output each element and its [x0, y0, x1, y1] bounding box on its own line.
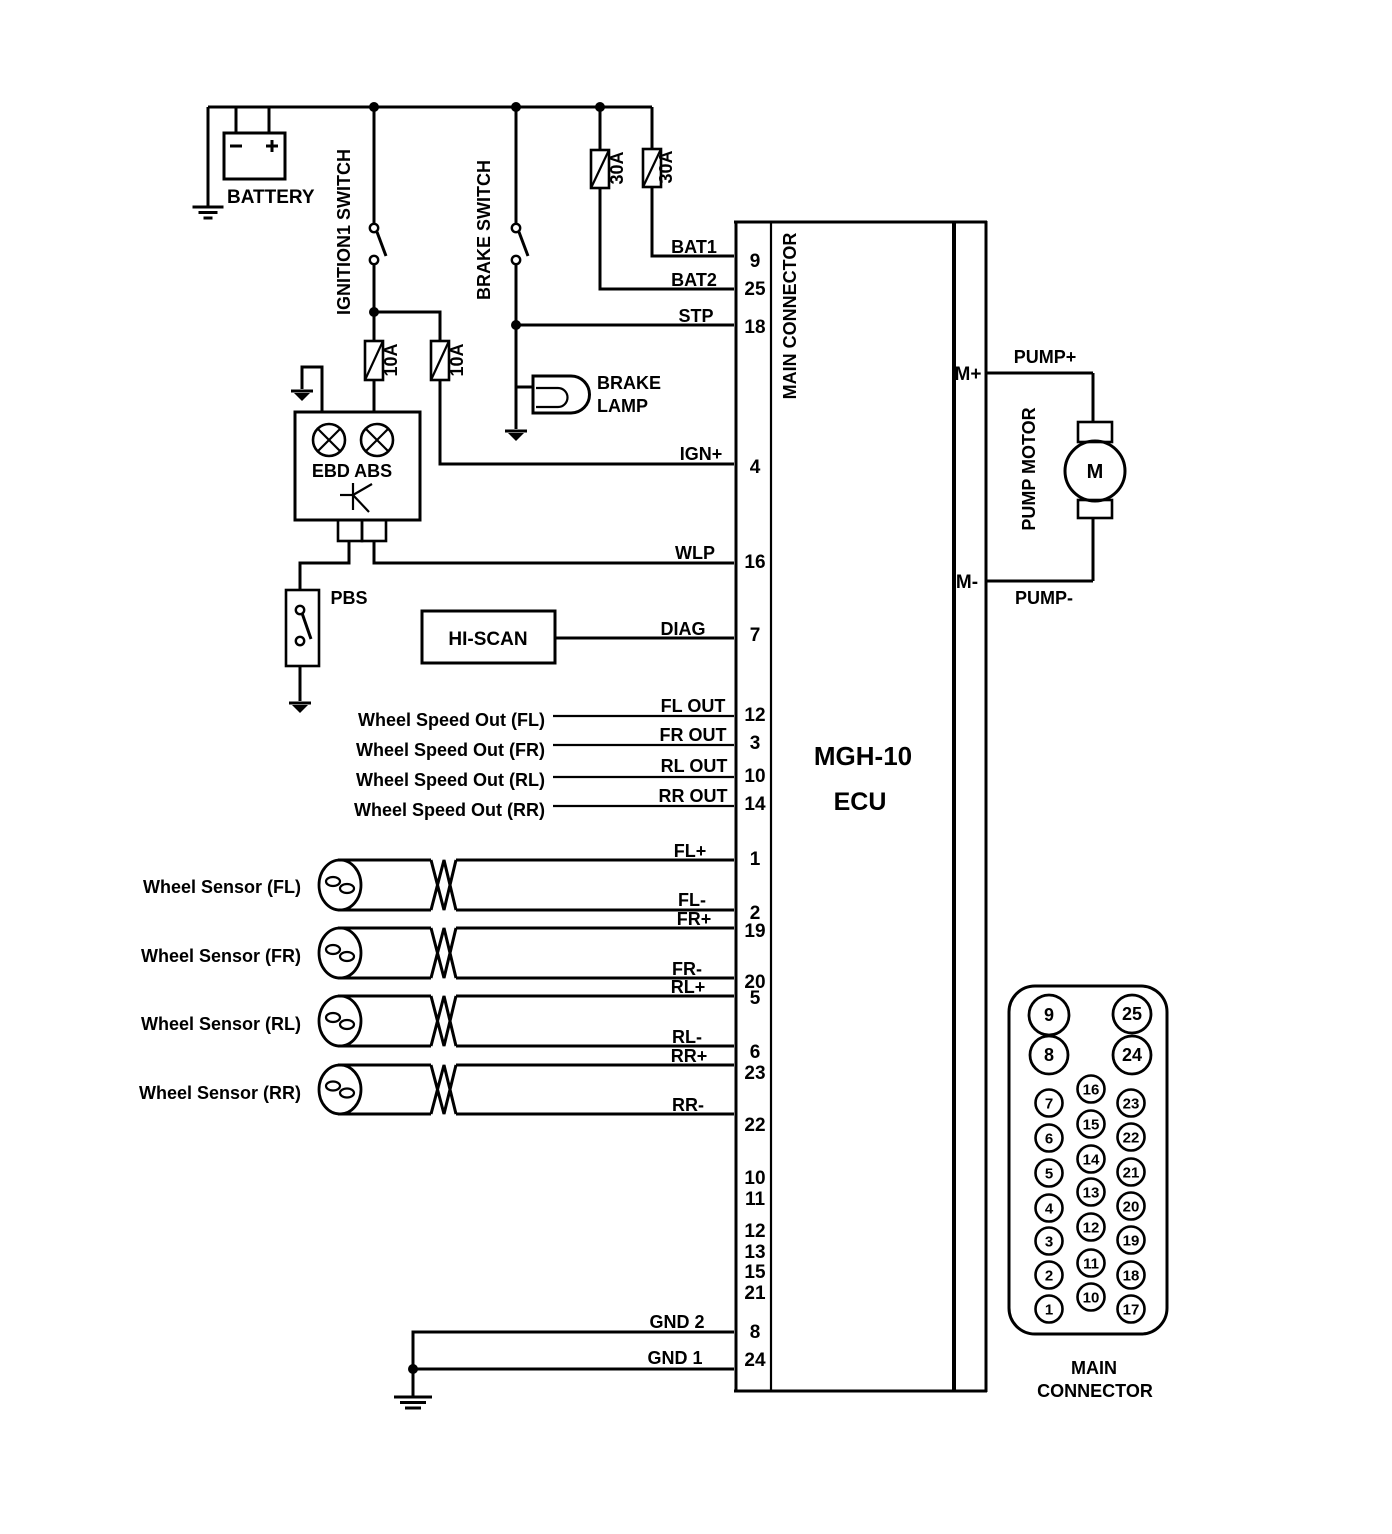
- svg-text:FR+: FR+: [677, 909, 712, 929]
- svg-text:25: 25: [1122, 1004, 1142, 1024]
- svg-text:CONNECTOR: CONNECTOR: [1037, 1381, 1153, 1401]
- svg-text:LAMP: LAMP: [597, 396, 648, 416]
- svg-text:BRAKE: BRAKE: [597, 373, 661, 393]
- svg-text:1: 1: [1045, 1302, 1053, 1319]
- svg-text:Wheel Sensor (FL): Wheel Sensor (FL): [143, 877, 301, 897]
- svg-text:7: 7: [1045, 1096, 1053, 1113]
- svg-text:EBD ABS: EBD ABS: [312, 461, 392, 481]
- svg-text:ECU: ECU: [834, 788, 887, 816]
- svg-text:FR OUT: FR OUT: [660, 725, 727, 745]
- svg-text:3: 3: [1045, 1234, 1053, 1251]
- svg-text:17: 17: [1123, 1302, 1140, 1319]
- svg-text:23: 23: [744, 1063, 765, 1084]
- svg-text:24: 24: [1122, 1045, 1142, 1065]
- svg-text:BAT1: BAT1: [671, 237, 717, 257]
- svg-text:19: 19: [744, 921, 765, 942]
- svg-text:RR OUT: RR OUT: [659, 786, 728, 806]
- svg-text:13: 13: [1083, 1185, 1100, 1202]
- svg-text:M-: M-: [956, 572, 978, 593]
- svg-text:8: 8: [1044, 1045, 1054, 1065]
- svg-text:10: 10: [744, 766, 765, 787]
- svg-text:18: 18: [744, 317, 765, 338]
- svg-text:14: 14: [1083, 1152, 1100, 1169]
- svg-text:4: 4: [1045, 1201, 1054, 1218]
- svg-text:Wheel Sensor (FR): Wheel Sensor (FR): [141, 946, 301, 966]
- svg-text:RL OUT: RL OUT: [661, 756, 728, 776]
- svg-text:GND 1: GND 1: [647, 1348, 702, 1368]
- svg-text:STP: STP: [678, 306, 713, 326]
- svg-text:11: 11: [745, 1189, 766, 1210]
- svg-text:FL+: FL+: [674, 841, 707, 861]
- svg-text:IGN+: IGN+: [680, 444, 723, 464]
- svg-text:11: 11: [1083, 1256, 1099, 1273]
- svg-text:Wheel Speed Out (FL): Wheel Speed Out (FL): [358, 710, 545, 730]
- svg-text:6: 6: [750, 1042, 761, 1063]
- svg-text:10: 10: [1083, 1290, 1100, 1307]
- svg-text:20: 20: [1123, 1199, 1140, 1216]
- svg-text:24: 24: [744, 1350, 766, 1371]
- svg-text:FL-: FL-: [678, 890, 706, 910]
- svg-text:8: 8: [750, 1322, 761, 1343]
- svg-text:3: 3: [750, 733, 761, 754]
- svg-text:12: 12: [744, 705, 765, 726]
- svg-text:21: 21: [1123, 1165, 1140, 1182]
- svg-text:23: 23: [1123, 1096, 1140, 1113]
- svg-text:PUMP-: PUMP-: [1015, 588, 1073, 608]
- svg-text:PUMP+: PUMP+: [1014, 347, 1077, 367]
- svg-text:FL OUT: FL OUT: [661, 696, 726, 716]
- svg-text:21: 21: [744, 1283, 766, 1304]
- svg-text:16: 16: [744, 552, 765, 573]
- svg-text:15: 15: [1083, 1117, 1100, 1134]
- svg-text:GND 2: GND 2: [649, 1312, 704, 1332]
- svg-text:22: 22: [744, 1115, 765, 1136]
- svg-text:FR-: FR-: [672, 959, 702, 979]
- svg-text:6: 6: [1045, 1131, 1053, 1148]
- svg-text:Wheel Speed Out (FR): Wheel Speed Out (FR): [356, 740, 545, 760]
- svg-text:2: 2: [1045, 1268, 1053, 1285]
- svg-text:M+: M+: [955, 364, 982, 385]
- svg-text:BRAKE SWITCH: BRAKE SWITCH: [474, 160, 494, 300]
- svg-text:30A: 30A: [607, 151, 627, 184]
- svg-text:5: 5: [750, 988, 761, 1009]
- svg-text:19: 19: [1123, 1233, 1140, 1250]
- svg-text:10: 10: [744, 1168, 765, 1189]
- svg-text:RR+: RR+: [671, 1046, 708, 1066]
- svg-text:10A: 10A: [447, 343, 467, 376]
- svg-text:10A: 10A: [381, 343, 401, 376]
- svg-text:BATTERY: BATTERY: [227, 187, 315, 208]
- svg-text:30A: 30A: [656, 150, 676, 183]
- svg-text:MGH-10: MGH-10: [814, 741, 912, 771]
- svg-text:IGNITION1 SWITCH: IGNITION1 SWITCH: [334, 149, 354, 315]
- svg-text:9: 9: [1044, 1005, 1054, 1025]
- svg-text:Wheel Sensor (RL): Wheel Sensor (RL): [141, 1014, 301, 1034]
- svg-text:MAIN CONNECTOR: MAIN CONNECTOR: [780, 233, 800, 400]
- svg-text:HI-SCAN: HI-SCAN: [448, 629, 527, 650]
- svg-text:5: 5: [1045, 1166, 1053, 1183]
- svg-text:RR-: RR-: [672, 1095, 704, 1115]
- svg-text:4: 4: [750, 457, 761, 478]
- svg-text:PUMP MOTOR: PUMP MOTOR: [1019, 407, 1039, 530]
- svg-text:7: 7: [750, 625, 761, 646]
- svg-text:BAT2: BAT2: [671, 270, 717, 290]
- svg-text:RL+: RL+: [671, 977, 706, 997]
- svg-text:RL-: RL-: [672, 1027, 702, 1047]
- svg-text:16: 16: [1083, 1082, 1100, 1099]
- svg-text:18: 18: [1123, 1268, 1140, 1285]
- svg-text:22: 22: [1123, 1130, 1140, 1147]
- svg-text:25: 25: [744, 279, 766, 300]
- svg-text:14: 14: [744, 794, 766, 815]
- svg-text:1: 1: [750, 849, 761, 870]
- svg-text:Wheel Speed Out (RR): Wheel Speed Out (RR): [354, 800, 545, 820]
- svg-text:13: 13: [744, 1242, 765, 1263]
- svg-text:9: 9: [750, 251, 761, 272]
- svg-text:MAIN: MAIN: [1071, 1358, 1117, 1378]
- svg-text:PBS: PBS: [330, 588, 367, 608]
- svg-text:15: 15: [744, 1262, 766, 1283]
- svg-text:12: 12: [744, 1221, 765, 1242]
- svg-text:M: M: [1087, 461, 1104, 483]
- svg-text:12: 12: [1083, 1220, 1100, 1237]
- svg-text:DIAG: DIAG: [661, 619, 706, 639]
- svg-text:Wheel Speed Out (RL): Wheel Speed Out (RL): [356, 770, 545, 790]
- svg-text:Wheel Sensor (RR): Wheel Sensor (RR): [139, 1083, 301, 1103]
- svg-text:WLP: WLP: [675, 543, 715, 563]
